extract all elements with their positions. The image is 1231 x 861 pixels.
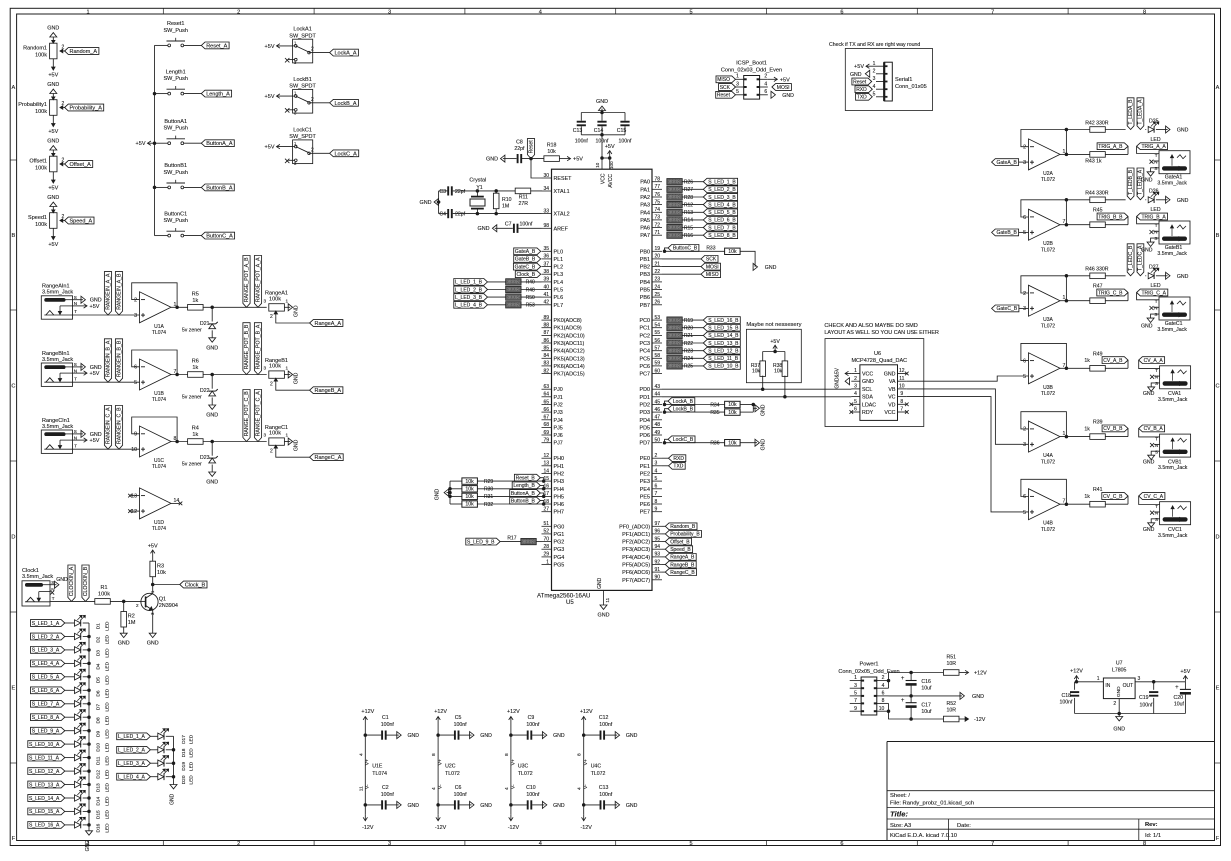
svg-text:GND: GND: [486, 157, 498, 163]
svg-text:3: 3: [134, 313, 137, 319]
label ButtonC_B: [663, 250, 666, 253]
label S_LED_2_B: [682, 188, 703, 190]
wire: [64, 107, 65, 109]
svg-text:PL3: PL3: [554, 272, 564, 278]
svg-text:B: B: [12, 233, 16, 239]
svg-text:N: N: [74, 368, 77, 373]
LED D11: [75, 754, 81, 760]
svg-text:+12V: +12V: [434, 709, 447, 715]
potentiometer Random1 100k: [50, 43, 57, 59]
svg-text:89: 89: [543, 315, 549, 321]
svg-text:100nf: 100nf: [1140, 703, 1154, 709]
wire: [531, 190, 542, 192]
svg-text:4: 4: [539, 9, 542, 15]
svg-text:PC4: PC4: [640, 349, 651, 355]
svg-text:PF6(ADC6): PF6(ADC6): [622, 570, 650, 576]
svg-text:5: 5: [690, 9, 693, 15]
LED D6: [75, 687, 81, 693]
svg-text:T_LEDA_A: T_LEDA_A: [1138, 99, 1144, 125]
svg-text:R13: R13: [684, 210, 693, 216]
wire: [65, 784, 75, 786]
wire tip to op-amp: [73, 448, 140, 450]
label GateA_B: [992, 159, 1019, 166]
wire -12V rail: [889, 703, 944, 719]
label RangeA_B: [662, 556, 665, 558]
svg-text:TRIG_C_A: TRIG_C_A: [1142, 290, 1167, 296]
LED D18: [158, 747, 164, 753]
svg-text:Offset_B: Offset_B: [670, 539, 690, 545]
gnd: [1166, 196, 1170, 203]
capacitor C18 100nf: [1074, 682, 1076, 690]
svg-text:GateA_B: GateA_B: [515, 249, 536, 255]
svg-text:TL074: TL074: [372, 771, 387, 777]
label L_LED_2_A: [117, 746, 151, 753]
U5 pin PG3: [542, 548, 552, 550]
svg-text:R30: R30: [484, 487, 493, 493]
label RXD: [662, 457, 669, 459]
svg-text:+5V: +5V: [265, 145, 275, 151]
capacitor C9 100nf: [511, 734, 527, 736]
svg-text:U3B: U3B: [1043, 385, 1053, 391]
U5 pin PC2: [652, 334, 662, 336]
svg-text:+12V: +12V: [507, 709, 520, 715]
resistor R19 300R: [667, 317, 683, 323]
svg-text:1k: 1k: [192, 432, 198, 438]
U5 pin PG2: [542, 541, 552, 543]
connector CVB1 3.5mm_Jack: [1160, 434, 1191, 457]
svg-text:S_LED_8_A: S_LED_8_A: [32, 715, 60, 721]
switch ButtonB1 SW_Push: [155, 186, 168, 188]
label Reset_A: [201, 42, 229, 49]
svg-text:S_LED_2_B: S_LED_2_B: [708, 187, 736, 193]
svg-text:PC3: PC3: [640, 341, 651, 347]
label SCK: [662, 258, 701, 260]
LED D20: [158, 774, 164, 780]
label RANGE_POT_A_B: [243, 256, 250, 308]
U6 pin 11 VA: [898, 380, 907, 382]
svg-text:10: 10: [595, 162, 600, 168]
svg-text:V-: V-: [583, 784, 589, 789]
svg-text:S_LED_14_A: S_LED_14_A: [29, 796, 60, 802]
svg-text:10k: 10k: [547, 149, 556, 155]
svg-text:300R: 300R: [668, 318, 681, 324]
label ButtonC_A: [201, 232, 234, 239]
svg-text:Length1: Length1: [166, 69, 186, 75]
svg-text:D12: D12: [96, 770, 102, 779]
svg-text:L_LED_4_A: L_LED_4_A: [118, 775, 146, 781]
svg-text:S_LED_10_A: S_LED_10_A: [29, 742, 60, 748]
svg-text:22pf: 22pf: [455, 212, 466, 218]
svg-text:R19: R19: [684, 318, 693, 324]
svg-text:PB0: PB0: [640, 249, 650, 255]
svg-text:VCC: VCC: [862, 372, 873, 378]
svg-text:1: 1: [86, 9, 89, 15]
svg-text:1: 1: [854, 675, 857, 681]
label S_LED_3_A: [31, 647, 65, 654]
svg-text:LED: LED: [105, 635, 111, 645]
wire: [65, 689, 75, 691]
label S_LED_15_A: [28, 808, 65, 815]
feedback wire: [1021, 276, 1067, 301]
svg-text:R23: R23: [684, 349, 693, 355]
svg-text:PB4: PB4: [640, 280, 650, 286]
no-connect X marks: [850, 403, 854, 407]
svg-text:LockA_A: LockA_A: [335, 51, 357, 57]
svg-text:GND: GND: [1177, 198, 1189, 204]
IC U5 ATmega2560-16AU: [552, 169, 653, 590]
U5 pin PF0: [652, 525, 662, 527]
svg-text:S: S: [51, 580, 54, 585]
switch LockB1 SW_SPDT: [293, 89, 313, 113]
svg-text:LED: LED: [1151, 137, 1161, 143]
svg-text:D25: D25: [1149, 118, 1159, 124]
U5 pin PF5: [652, 564, 662, 566]
capacitor C2 100nf: [365, 804, 381, 806]
U5 pin PE7: [652, 511, 662, 513]
resistor R48 300R: [488, 289, 506, 291]
wire VC to U4B: [907, 397, 1029, 512]
svg-text:4: 4: [539, 841, 542, 847]
svg-text:LED: LED: [105, 715, 111, 725]
svg-text:10uf: 10uf: [921, 686, 932, 692]
connector CVA1 3.5mm_Jack: [1160, 366, 1191, 389]
svg-text:100nf: 100nf: [599, 722, 613, 728]
svg-text:3.5mm_Jack: 3.5mm_Jack: [1158, 465, 1188, 471]
label GateC_B: [992, 305, 1019, 312]
svg-text:300R: 300R: [668, 179, 681, 185]
svg-text:300R: 300R: [507, 280, 520, 286]
LED D13: [75, 781, 81, 787]
resistor R27 300R: [667, 186, 683, 192]
LED D15: [75, 808, 81, 814]
label S_LED_10_B: [682, 365, 703, 367]
svg-text:PJ3: PJ3: [554, 410, 563, 416]
svg-text:100k: 100k: [269, 431, 281, 437]
label Offset_B: [662, 541, 665, 543]
svg-text:S_LED_13_A: S_LED_13_A: [29, 782, 60, 788]
U6 pin 10 VB: [898, 388, 907, 390]
svg-text:82: 82: [543, 368, 549, 374]
gnd at jack: [1151, 383, 1159, 387]
U5 pin PD1: [652, 396, 662, 398]
svg-text:R27: R27: [684, 187, 693, 193]
svg-text:70: 70: [543, 536, 549, 542]
svg-text:TRIG_C_B: TRIG_C_B: [1098, 290, 1123, 296]
svg-text:PJ5: PJ5: [554, 425, 563, 431]
wire output: [1060, 153, 1066, 155]
resistor R16 300R: [667, 232, 683, 238]
svg-text:71: 71: [655, 230, 661, 236]
U5 pin PJ0: [542, 388, 552, 390]
svg-text:50: 50: [655, 438, 661, 444]
capacitor C3 22pf: [447, 186, 449, 195]
capacitor C13 100nf: [584, 804, 600, 806]
svg-text:67: 67: [543, 415, 549, 421]
U5 pin PJ6: [542, 434, 552, 436]
resistor R42 330R: [1066, 129, 1089, 131]
svg-text:PC1: PC1: [640, 326, 651, 332]
U5 pin PB2: [652, 266, 662, 268]
svg-text:RangeB_A: RangeB_A: [315, 388, 342, 394]
svg-text:PH0: PH0: [554, 456, 565, 462]
resistor R40 300R: [488, 281, 506, 283]
svg-text:ICSP_Boot1: ICSP_Boot1: [736, 61, 767, 67]
svg-text:48: 48: [655, 422, 661, 428]
svg-text:19: 19: [655, 246, 661, 252]
+5V: [152, 554, 154, 561]
U5 pin PE5: [652, 495, 662, 497]
svg-text:C16: C16: [921, 679, 931, 685]
resistor R10 1M: [495, 191, 497, 194]
U5 pin PG1: [542, 533, 552, 535]
svg-text:RANGEIN_A_A: RANGEIN_A_A: [105, 273, 111, 310]
svg-text:D16: D16: [96, 823, 102, 832]
wire: [763, 351, 785, 353]
resistor R22 300R: [667, 340, 683, 346]
svg-text:3.5mm_Jack: 3.5mm_Jack: [1157, 181, 1187, 187]
U5 pin PL7: [542, 304, 552, 306]
svg-text:MOSI: MOSI: [706, 264, 719, 270]
svg-text:R21: R21: [684, 333, 693, 339]
wire: [65, 810, 75, 812]
svg-text:68: 68: [543, 422, 549, 428]
U5 pin PK7: [542, 373, 552, 375]
svg-text:R20: R20: [684, 326, 693, 332]
svg-text:D8: D8: [96, 717, 102, 723]
svg-text:3: 3: [388, 9, 391, 15]
svg-text:54: 54: [655, 323, 661, 329]
transistor Q1 2N3904: [141, 593, 158, 610]
svg-text:GND: GND: [434, 488, 440, 500]
svg-text:2: 2: [311, 147, 314, 153]
resistor R37 10k: [760, 361, 766, 377]
wire wiper to label: [276, 316, 310, 323]
gnd: [120, 633, 127, 637]
svg-text:10k: 10k: [728, 440, 737, 446]
svg-text:GND: GND: [294, 372, 300, 384]
svg-text:3: 3: [655, 461, 658, 467]
svg-text:6: 6: [840, 841, 843, 847]
svg-text:8: 8: [1143, 9, 1146, 15]
wire: [65, 703, 75, 705]
svg-text:PJ4: PJ4: [554, 418, 563, 424]
feedback wire: [1021, 412, 1067, 437]
svg-text:LockB1: LockB1: [293, 77, 311, 83]
svg-text:96: 96: [655, 529, 661, 535]
svg-text:D7: D7: [96, 704, 102, 710]
svg-text:N: N: [1155, 443, 1158, 448]
svg-text:GND: GND: [408, 733, 420, 739]
junction: [153, 92, 156, 95]
svg-text:SCK: SCK: [720, 85, 731, 91]
svg-text:100nf: 100nf: [619, 139, 633, 145]
svg-text:300R: 300R: [507, 295, 520, 301]
svg-text:300R: 300R: [668, 210, 681, 216]
svg-text:Size: A3: Size: A3: [890, 823, 911, 829]
label L_LED_1_A: [117, 733, 151, 740]
svg-text:6: 6: [655, 484, 658, 490]
svg-text:3: 3: [1138, 676, 1141, 682]
capacitor C12 100nf: [584, 734, 600, 736]
svg-text:64: 64: [543, 392, 549, 398]
svg-text:4: 4: [358, 753, 364, 756]
svg-text:2: 2: [882, 675, 885, 681]
svg-text:T_LEDA_B: T_LEDA_B: [1128, 99, 1134, 125]
U5 pin PA7: [652, 234, 662, 236]
svg-text:RANGEIN_B_A: RANGEIN_B_A: [105, 340, 111, 377]
svg-text:5: 5: [690, 841, 693, 847]
svg-text:N: N: [1154, 230, 1157, 235]
gnd at pot: [284, 441, 290, 443]
label Length_A: [201, 90, 231, 97]
svg-text:12: 12: [543, 453, 549, 459]
svg-text:2: 2: [270, 448, 273, 454]
svg-text:98: 98: [543, 223, 549, 229]
label S_LED_9_A: [31, 727, 65, 734]
svg-text:PB6: PB6: [640, 295, 650, 301]
svg-text:PE6: PE6: [640, 502, 650, 508]
label RANGEIN_B_A: [104, 339, 111, 382]
switch Reset1 SW_Push: [155, 44, 168, 46]
svg-text:1k: 1k: [192, 365, 198, 371]
U6 pin 3 SCL: [851, 388, 860, 390]
svg-text:S_LED_6_B: S_LED_6_B: [708, 218, 736, 224]
power GND&5V: [845, 373, 851, 375]
svg-text:R46 330R: R46 330R: [1085, 267, 1109, 273]
label T_LEDA_A: [1137, 98, 1144, 130]
+5V: [866, 65, 876, 67]
LED D1: [75, 620, 81, 626]
svg-text:LockC_A: LockC_A: [335, 151, 358, 157]
svg-text:300R: 300R: [668, 218, 681, 224]
svg-text:N: N: [74, 435, 77, 440]
svg-text:10: 10: [879, 706, 885, 712]
LED D8: [75, 714, 81, 720]
+5V: [768, 78, 778, 80]
gnd: [615, 801, 619, 808]
svg-text:R43 1k: R43 1k: [1085, 159, 1102, 165]
gnd at jack sleeve: [73, 366, 84, 368]
svg-text:6: 6: [1023, 358, 1026, 364]
svg-text:8: 8: [577, 753, 583, 756]
svg-text:8: 8: [1143, 841, 1146, 847]
svg-text:PF3(ADC3): PF3(ADC3): [622, 547, 650, 553]
svg-text:S_LED_12_A: S_LED_12_A: [29, 769, 60, 775]
svg-text:3.5mm_Jack: 3.5mm_Jack: [42, 290, 73, 296]
U5 pin PG5: [542, 564, 552, 566]
feedback wire: [1021, 479, 1067, 504]
label RANGEIN_C_A: [104, 406, 111, 450]
svg-text:3: 3: [263, 299, 266, 304]
svg-text:ButtonA_B: ButtonA_B: [511, 491, 536, 497]
svg-text:LockC_B: LockC_B: [673, 437, 694, 443]
svg-text:100nf: 100nf: [1060, 699, 1074, 705]
svg-text:LAYOUT AS WELL SO YOU CAN USE: LAYOUT AS WELL SO YOU CAN USE EITHER: [824, 330, 939, 336]
capacitor C19 100nf: [1153, 682, 1155, 690]
wire lock gnd: [752, 405, 754, 413]
svg-text:D11: D11: [96, 756, 102, 765]
U5 pin PA6: [652, 227, 662, 229]
-12V arrow: [959, 718, 968, 720]
label S_LED_16_A: [28, 822, 65, 829]
svg-text:7: 7: [655, 491, 658, 497]
U5 pin PL0: [542, 250, 552, 252]
svg-text:TRIG_A_B: TRIG_A_B: [1098, 144, 1123, 150]
svg-text:PH4: PH4: [554, 487, 565, 493]
svg-text:LED: LED: [105, 783, 111, 793]
svg-text:T: T: [74, 309, 77, 314]
resistor R53 300R: [488, 304, 506, 306]
resistor R14 300R: [667, 217, 683, 223]
svg-text:GND: GND: [553, 733, 565, 739]
svg-text:22pf: 22pf: [455, 189, 466, 195]
label MISO: [662, 273, 701, 275]
svg-text:3.5mm_Jack: 3.5mm_Jack: [1157, 327, 1187, 333]
svg-text:+: +: [901, 698, 905, 704]
wire clock_B: [153, 584, 180, 586]
svg-text:XTAL2: XTAL2: [554, 212, 570, 218]
svg-text:D2: D2: [96, 636, 102, 642]
wire wiper to label: [276, 451, 310, 458]
svg-text:R32: R32: [484, 502, 493, 508]
svg-text:Clock_B: Clock_B: [185, 583, 206, 589]
gnd: [437, 201, 439, 203]
svg-text:3.5mm_Jack: 3.5mm_Jack: [1158, 533, 1188, 539]
label S_LED_8_B: [682, 234, 703, 236]
svg-text:C19: C19: [1139, 695, 1149, 701]
gnd at jack: [1151, 168, 1159, 172]
svg-text:PH6: PH6: [554, 502, 565, 508]
svg-text:Title:: Title:: [890, 810, 908, 819]
svg-text:PD1: PD1: [640, 395, 651, 401]
svg-text:PG2: PG2: [554, 540, 565, 546]
svg-text:300R: 300R: [668, 195, 681, 201]
svg-text:CLOCKIN_A: CLOCKIN_A: [69, 566, 75, 596]
potentiometer Speed1 100k: [50, 213, 57, 229]
svg-text:R33: R33: [706, 245, 715, 251]
svg-text:GateC_B: GateC_B: [997, 306, 1018, 312]
svg-text:88: 88: [543, 323, 549, 329]
svg-text:GND: GND: [47, 195, 59, 201]
svg-text:+5V: +5V: [48, 129, 58, 135]
svg-text:ButtonB_B: ButtonB_B: [511, 498, 536, 504]
U5 pin PH5: [542, 495, 552, 497]
svg-text:LED: LED: [105, 688, 111, 698]
label S_LED_4_A: [31, 660, 65, 667]
svg-text:21: 21: [655, 261, 661, 267]
switch Length1 SW_Push: [155, 93, 168, 95]
svg-text:SCL: SCL: [862, 387, 872, 393]
svg-text:2: 2: [62, 101, 65, 107]
svg-text:6: 6: [1023, 494, 1026, 500]
svg-text:42: 42: [543, 300, 549, 306]
svg-text:R31: R31: [484, 494, 493, 500]
svg-text:GND: GND: [480, 733, 492, 739]
label LockB_A: [330, 99, 359, 106]
svg-text:PE3: PE3: [640, 479, 650, 485]
svg-text:PK1(ADC9): PK1(ADC9): [554, 326, 582, 332]
svg-text:+5V: +5V: [90, 304, 100, 310]
svg-text:Crystal: Crystal: [469, 177, 486, 183]
svg-text:PL4: PL4: [554, 280, 564, 286]
svg-text:+12V: +12V: [974, 671, 987, 677]
crystal Y1: [476, 191, 478, 196]
svg-text:300R: 300R: [668, 202, 681, 208]
+5V: [609, 151, 611, 158]
svg-text:Rev:: Rev:: [1145, 822, 1158, 828]
svg-text:100nf: 100nf: [575, 139, 589, 145]
gnd: [52, 37, 54, 43]
